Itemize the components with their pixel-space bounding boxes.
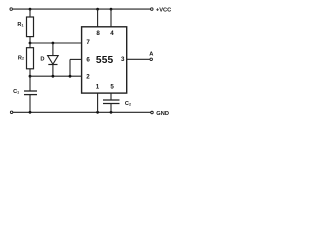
- resistor R1: [27, 17, 34, 37]
- terminal circle GND: [151, 111, 154, 114]
- svg-text:5: 5: [110, 84, 114, 91]
- wire pin6 vertical: [69, 59, 71, 76]
- svg-text:C2: C2: [125, 101, 131, 107]
- wire pin 1 stub: [97, 93, 99, 112]
- capacitor C2: [103, 100, 120, 104]
- svg-text:7: 7: [86, 39, 90, 46]
- wire pin 5 stub: [110, 93, 112, 100]
- svg-text:D: D: [40, 56, 44, 62]
- node junction R2/C1/pin2: [29, 75, 32, 78]
- svg-text:2: 2: [86, 73, 90, 80]
- svg-text:GND: GND: [156, 111, 169, 117]
- node junction diode top: [52, 42, 55, 45]
- wire pin 7: [30, 42, 82, 44]
- wire pin 4 stub: [110, 9, 112, 27]
- wire R1 top stub: [29, 9, 31, 17]
- node junction pin1/GND rail: [96, 111, 99, 114]
- svg-text:6: 6: [86, 57, 90, 64]
- wire top +VCC rail: [13, 8, 151, 10]
- wire R2 bottom stub: [29, 69, 31, 76]
- wire C1 top stub: [29, 76, 31, 91]
- svg-text:4: 4: [110, 30, 114, 37]
- terminal circle top-left: [10, 8, 13, 11]
- terminal circle bottom-left: [10, 111, 13, 114]
- node junction C2/GND rail: [110, 111, 113, 114]
- svg-text:1: 1: [96, 84, 100, 91]
- svg-text:R1: R1: [17, 22, 23, 28]
- resistor R2: [27, 48, 34, 69]
- svg-text:+VCC: +VCC: [156, 8, 171, 14]
- wire bottom GND rail: [13, 111, 151, 113]
- node junction R1/R2/pin7: [29, 42, 32, 45]
- svg-text:C1: C1: [13, 89, 19, 95]
- svg-text:8: 8: [96, 30, 100, 37]
- node junction top of R1: [29, 8, 32, 11]
- node junction diode bottom: [52, 75, 55, 78]
- svg-text:555: 555: [96, 55, 114, 66]
- capacitor C1: [24, 91, 37, 95]
- wire pin 3 output: [127, 58, 150, 60]
- svg-text:3: 3: [121, 56, 125, 63]
- svg-text:A: A: [149, 51, 153, 57]
- IC U1 555 timer body: [82, 27, 127, 93]
- node junction pin8 on rail: [96, 8, 99, 11]
- node junction pin4 on rail: [110, 8, 113, 11]
- wire pin 8 stub: [97, 9, 99, 27]
- terminal circle +VCC: [151, 8, 154, 11]
- wire C2 bottom stub: [110, 104, 112, 113]
- wire pin 6: [70, 58, 82, 60]
- wire R2 top stub: [29, 43, 31, 48]
- node junction C1/GND rail: [29, 111, 32, 114]
- wire R1 bottom stub: [29, 37, 31, 43]
- diode D: [48, 43, 59, 76]
- wire C1 bottom stub: [29, 95, 31, 113]
- terminal circle A: [150, 58, 153, 61]
- node junction pin6/pin2: [69, 75, 72, 78]
- wire pin 2: [30, 75, 82, 77]
- svg-text:R2: R2: [18, 55, 24, 61]
